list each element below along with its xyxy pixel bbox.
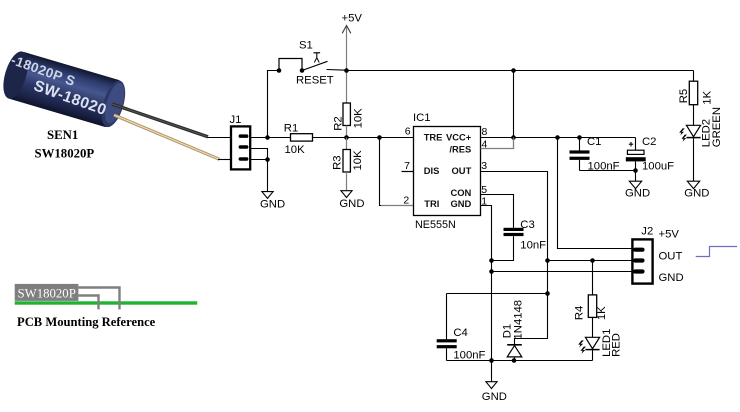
junction +5V rail / top rail [344, 68, 349, 73]
label D1 1N4148 [512, 300, 524, 340]
label J2 +5V [659, 228, 680, 240]
wire LED2 to gnd [693, 138, 695, 182]
wire J1 pin1 to R1 [250, 137, 290, 139]
wire down to D1 jog [515, 294, 548, 345]
label J2 [641, 225, 653, 237]
pin number 2 [403, 194, 409, 206]
junction top rail / VCC column [511, 68, 516, 73]
junction pin1/gnd row [489, 269, 494, 274]
ground C2 [625, 171, 650, 200]
svg-text:10nF: 10nF [520, 239, 546, 251]
capacitor C2 [626, 138, 646, 171]
svg-text:2: 2 [403, 194, 409, 206]
wire pin8 to main rail [481, 137, 636, 139]
label R5 [678, 89, 690, 103]
switch S1 [277, 53, 347, 73]
svg-text:SW18020P: SW18020P [35, 147, 95, 161]
svg-text:1K: 1K [702, 90, 714, 104]
label C4 100nF [453, 350, 485, 362]
label C1 [587, 136, 601, 148]
label D1 [502, 324, 514, 338]
label NE555N [415, 219, 456, 231]
junction R4 tap [590, 258, 595, 263]
label PCB Mounting Reference [17, 315, 156, 329]
PCB mounting reference: part label [18, 286, 76, 300]
svg-text:S1: S1 [299, 40, 313, 52]
junction bottom gnd [489, 358, 494, 363]
diode D1 [507, 345, 522, 361]
svg-text:C2: C2 [642, 136, 656, 148]
svg-text:GND: GND [684, 187, 709, 199]
svg-text:GND: GND [450, 198, 471, 209]
label R4 [574, 306, 586, 320]
svg-text:R1: R1 [284, 122, 298, 134]
label R5 1K [702, 90, 714, 104]
label S1 [299, 40, 313, 52]
pin number 1 [481, 195, 487, 207]
wire top rail S1 to R5 [347, 70, 694, 72]
svg-text:J1: J1 [230, 114, 242, 126]
capacitor C3 [492, 228, 524, 261]
junction J2 feed column [555, 135, 560, 140]
junction J1 gnd node [265, 157, 270, 162]
pin number 4 [482, 139, 488, 151]
svg-text:R3: R3 [331, 155, 343, 169]
svg-text:GND: GND [482, 391, 507, 403]
wire node up to S1 [268, 71, 280, 138]
wire pin5 to C3 [481, 195, 514, 228]
wire pin4 jog (gray) [481, 138, 514, 149]
label LED1 [601, 329, 613, 357]
svg-text:GND: GND [339, 198, 364, 210]
svg-text:GREEN: GREEN [711, 107, 723, 147]
svg-text:/RES: /RES [449, 144, 471, 155]
resistor R2 [343, 103, 350, 138]
label J2 OUT [659, 251, 683, 263]
pin number 3 [481, 160, 487, 172]
svg-text:VCC+: VCC+ [446, 132, 472, 143]
svg-text:GND: GND [260, 198, 285, 210]
ground J1 [260, 192, 285, 211]
resistor R3 [343, 138, 350, 191]
wire TRI branch column [380, 138, 414, 206]
svg-text:C3: C3 [520, 219, 534, 231]
ground bottom [482, 361, 507, 403]
LED1 [578, 337, 599, 360]
junction C2 gnd node [633, 168, 638, 173]
label C3 10nF [520, 239, 546, 251]
label R1 [284, 122, 298, 134]
wire pin2 stub (gray) [381, 205, 414, 207]
junction OUT row [545, 258, 550, 263]
wire sensor to J1 pin1 [208, 137, 232, 139]
label LED2 [701, 119, 713, 147]
label SW18020P [35, 147, 95, 161]
wire pin1 column [481, 206, 492, 361]
svg-text:RESET: RESET [296, 75, 334, 87]
label C4 [453, 327, 467, 339]
LED2 [679, 125, 700, 141]
connector J1 [231, 126, 250, 169]
svg-text:C4: C4 [453, 327, 467, 339]
PCB mounting reference: lead 1 [78, 288, 119, 310]
label C3 [520, 219, 534, 231]
svg-text:10K: 10K [285, 144, 306, 156]
pin number 7 [404, 160, 410, 172]
svg-text:10K: 10K [353, 108, 365, 129]
label RESET [296, 75, 334, 87]
svg-text:1N4148: 1N4148 [512, 300, 524, 340]
label C2 [642, 136, 656, 148]
junction pin1/C3 [489, 258, 494, 263]
PCB mounting reference: lead 2 [78, 296, 98, 310]
svg-text:PCB Mounting Reference: PCB Mounting Reference [17, 315, 156, 329]
svg-text:+5V: +5V [342, 13, 363, 25]
pin number 6 [405, 126, 411, 138]
svg-text:R4: R4 [574, 306, 586, 320]
svg-text:OUT: OUT [659, 251, 683, 263]
wire OUT row to J2 [548, 260, 634, 262]
wire bottom gnd row [447, 360, 593, 362]
ground LED2 [684, 181, 709, 199]
junction R2/R3 node [344, 135, 349, 140]
capacitor C1 [570, 138, 590, 171]
label LED2 GREEN [711, 107, 723, 147]
wire pin7 stub [402, 171, 414, 173]
svg-text:DIS: DIS [424, 165, 440, 176]
wire C1 to C2 bottom [580, 170, 636, 172]
svg-text:TRI: TRI [424, 198, 439, 209]
label R3 10K [352, 150, 364, 171]
label SEN1 [47, 128, 78, 142]
wire J1 pin3 to gnd node [250, 159, 267, 161]
label R3 [331, 155, 343, 169]
label R2 10K [353, 108, 365, 129]
+5V supply symbol [342, 13, 363, 103]
svg-text:GND: GND [659, 272, 684, 284]
svg-text:C1: C1 [587, 136, 601, 148]
label R2 [332, 116, 344, 130]
wire R1 to IC pin6 [313, 137, 414, 139]
wire VCC feed to J2 [558, 138, 634, 249]
svg-text:J2: J2 [641, 225, 653, 237]
svg-text:SW18020P: SW18020P [18, 286, 76, 300]
label C2 100uF [642, 160, 674, 172]
wire C4 top edge [447, 293, 548, 295]
svg-text:CON: CON [450, 187, 471, 198]
resistor R1 [291, 134, 313, 141]
sensor SEN1 body (photo) [0, 49, 130, 131]
svg-text:1K: 1K [596, 306, 608, 320]
sensor lead (black) [112, 104, 208, 137]
resistor R4 [588, 261, 596, 338]
wire J1 pin2 to gnd node [250, 149, 267, 160]
wire pin3 OUT column [481, 172, 548, 294]
junction OUT/C4-D1 node [545, 291, 550, 296]
svg-text:3: 3 [481, 160, 487, 172]
svg-text:100nF: 100nF [453, 350, 485, 362]
svg-text:8: 8 [482, 126, 488, 138]
label IC1 [413, 112, 431, 124]
label J2 GND [659, 272, 684, 284]
PCB mounting reference: board (green line) [15, 301, 198, 304]
connector J2 [632, 239, 652, 283]
svg-text:NE555N: NE555N [415, 219, 456, 231]
wire VCC column [513, 71, 515, 138]
svg-text:R5: R5 [678, 89, 690, 103]
svg-text:10K: 10K [352, 150, 364, 171]
svg-text:+5V: +5V [659, 228, 680, 240]
junction pin8/VCC column [511, 135, 516, 140]
label J1 [230, 114, 242, 126]
svg-text:IC1: IC1 [413, 112, 431, 124]
ground R3 [339, 191, 364, 211]
svg-text:RED: RED [611, 333, 623, 357]
svg-text:7: 7 [404, 160, 410, 172]
pin number 5 [481, 184, 487, 196]
svg-text:6: 6 [405, 126, 411, 138]
label R4 1K [596, 306, 608, 320]
svg-text:OUT: OUT [452, 165, 472, 176]
capacitor C4 [437, 294, 457, 361]
svg-text:100uF: 100uF [642, 160, 674, 172]
PCB mounting reference: part outline box [15, 284, 79, 301]
svg-text:R2: R2 [332, 116, 344, 130]
pin number 8 [482, 126, 488, 138]
wire gnd row to J2 [492, 271, 634, 273]
junction C1 column [577, 135, 582, 140]
svg-text:GND: GND [625, 187, 650, 199]
label LED1 RED [611, 333, 623, 357]
junction D1 bottom [512, 358, 517, 363]
svg-text:TRE: TRE [424, 132, 443, 143]
op-amp IC1 NE555 box [414, 127, 481, 216]
label R1 10K [285, 144, 306, 156]
resistor R5 [689, 71, 697, 126]
junction TRI branch node [377, 135, 382, 140]
svg-text:SEN1: SEN1 [47, 128, 78, 142]
sensor lead (tan) [114, 115, 220, 159]
wire sensor to J1 pin3 [218, 159, 231, 161]
label C1 100nF [588, 160, 620, 172]
output waveform [696, 247, 737, 257]
wire J1 gnd node down [267, 160, 269, 192]
node junction at R1 left [265, 135, 270, 140]
